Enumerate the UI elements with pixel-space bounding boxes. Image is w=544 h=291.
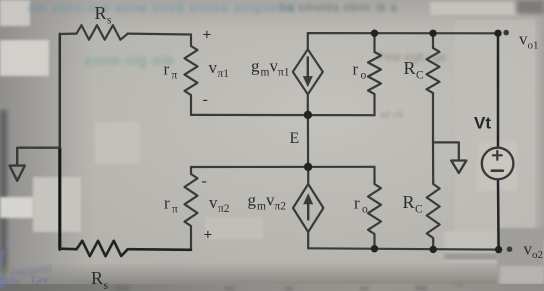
- svg-text:R: R: [91, 268, 103, 288]
- controlled source G1 arrow (downward): [307, 58, 309, 79]
- resistor RC2: [427, 182, 440, 250]
- svg-text:o2: o2: [532, 249, 543, 261]
- resistor Rs (bottom): [77, 241, 128, 256]
- wire: left vertical bus from top base wire down to bottom base wire: [59, 34, 62, 148]
- svg-text:s: s: [104, 278, 109, 291]
- resistor Rs (top): [77, 25, 128, 40]
- svg-text:E: E: [290, 130, 300, 147]
- svg-text:s: s: [107, 15, 112, 27]
- node dot: RC2 bottom: [430, 246, 437, 253]
- svg-text:o: o: [361, 70, 367, 82]
- svg-text:R: R: [404, 58, 416, 78]
- resistor ro1: [368, 33, 381, 115]
- resistor ro2: [368, 167, 381, 249]
- svg-text:R: R: [95, 3, 107, 23]
- source Vt plus sign: [493, 151, 502, 160]
- svg-text:-: -: [203, 91, 208, 108]
- node dot: RC1 top: [429, 30, 436, 37]
- svg-text:C: C: [416, 70, 424, 82]
- svg-text:Vt: Vt: [474, 114, 491, 133]
- node dot: E junction lower: [304, 163, 312, 171]
- wire: E node vertical link: [307, 115, 309, 167]
- svg-text:g: g: [248, 191, 257, 210]
- svg-text:π1: π1: [278, 67, 290, 79]
- controlled source G2 arrow (upward): [307, 203, 309, 220]
- node dot: ro1 top: [371, 30, 378, 37]
- svg-text:m: m: [257, 201, 266, 213]
- source Vt minus sign: [492, 169, 503, 172]
- controlled source G1 (gm*vpi1) stub top: [307, 33, 309, 49]
- node dot: ro2 bottom: [371, 245, 378, 252]
- wire: branch to ground near Vt: [433, 142, 459, 160]
- svg-text:+: +: [203, 27, 212, 44]
- wire: collector rail top (vo1 rail): [308, 32, 498, 34]
- controlled source G2 diamond: [293, 184, 323, 232]
- svg-text:v: v: [209, 58, 218, 77]
- controlled source G1 stub bottom: [307, 94, 309, 115]
- controlled source G2 stub bottom: [307, 232, 309, 248]
- svg-text:o1: o1: [528, 40, 539, 52]
- svg-text:v: v: [209, 193, 218, 212]
- svg-text:r: r: [164, 194, 170, 213]
- wire: left ground branch: [17, 148, 60, 166]
- svg-text:+: +: [204, 227, 213, 244]
- svg-text:R: R: [403, 192, 415, 212]
- resistor RC1: [427, 33, 440, 142]
- controlled source G1 diamond: [293, 49, 323, 94]
- node dot: vo2 rail right corner: [495, 246, 502, 253]
- node dot: E junction upper: [304, 111, 312, 119]
- wire: top base wire segment left of Rs1: [60, 32, 77, 35]
- terminal vo2: [507, 246, 513, 252]
- wire: bottom collector rail (vo2 rail): [308, 248, 499, 249]
- wire: top base wire from Rs1 to rpi1: [128, 32, 191, 35]
- svg-text:π2: π2: [218, 203, 230, 215]
- svg-text:r: r: [354, 194, 360, 213]
- svg-text:π: π: [172, 70, 178, 82]
- svg-text:o: o: [362, 204, 368, 216]
- svg-text:m: m: [261, 67, 270, 79]
- wire: Vt branch vertical upper: [497, 33, 500, 148]
- svg-text:-: -: [202, 173, 207, 190]
- svg-text:π: π: [172, 204, 178, 216]
- wire: RC column between RC1 and RC2: [432, 142, 434, 182]
- controlled source G2 (gm*vpi2) stub top: [307, 167, 309, 184]
- wire: bottom base wire from Rs2 to rpi2: [128, 248, 191, 251]
- wire: upper emitter rail: [191, 114, 375, 116]
- source Vt circle: [482, 148, 514, 180]
- wire: Vt branch vertical lower: [497, 179, 500, 249]
- ground symbol (left): [10, 166, 25, 181]
- node dot: vo1 rail right corner: [494, 30, 501, 37]
- svg-text:r: r: [164, 60, 170, 79]
- ground symbol (right, at RC midpoint): [451, 161, 466, 174]
- wire: lower emitter rail: [191, 166, 375, 168]
- terminal vo1: [503, 30, 509, 36]
- svg-text:r: r: [353, 60, 359, 79]
- svg-text:C: C: [415, 204, 423, 216]
- resistor rpi1: [185, 35, 198, 115]
- svg-text:g: g: [251, 57, 260, 76]
- svg-text:π1: π1: [218, 68, 230, 80]
- svg-text:π2: π2: [275, 201, 287, 213]
- wire: bottom base wire segment left of Rs2: [60, 247, 77, 250]
- resistor rpi2: [185, 167, 198, 250]
